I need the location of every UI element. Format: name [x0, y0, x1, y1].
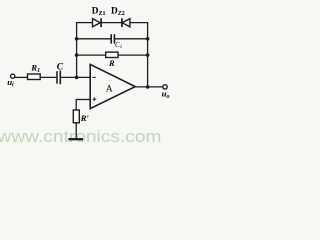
svg-text:R′: R′ [80, 113, 90, 123]
node: junction dot left rail / input [75, 76, 79, 80]
node: junction dot right rail / R [146, 53, 150, 57]
wire R rail left [77, 54, 106, 56]
op-amp plus marker [93, 97, 97, 101]
wire C1 rail left [77, 38, 111, 40]
wire non-inverting input horizontal [76, 99, 90, 101]
terminal ui [11, 74, 15, 78]
wire R rail right [118, 54, 148, 56]
svg-text:C: C [57, 62, 64, 72]
terminal uo [163, 85, 167, 89]
wire top rail left segment [77, 22, 93, 24]
wire C to op-amp inverting input [61, 76, 90, 78]
wire R' to ground [75, 123, 77, 139]
node: junction dot right rail / C1 [146, 37, 150, 41]
resistor R1 [28, 74, 41, 80]
wire top rail middle segment [101, 22, 121, 24]
wire C1 rail right [115, 38, 148, 40]
capacitor C [57, 71, 60, 85]
svg-text:R: R [108, 59, 115, 68]
svg-text:www.cntronics.com: www.cntronics.com [0, 127, 162, 146]
resistor R [106, 52, 118, 57]
op-amp minus marker [92, 76, 95, 78]
wire op-amp output [135, 86, 163, 88]
capacitor C1 [111, 34, 114, 43]
ground [68, 138, 83, 140]
diode Dz1 [93, 18, 102, 27]
wire input terminal to R1 [15, 76, 28, 78]
wire non-inverting vertical down to R' [75, 99, 77, 110]
node: junction dot left rail / C1 [75, 37, 79, 41]
wire top rail right segment [130, 22, 148, 24]
node: junction dot output [146, 85, 150, 89]
wire left feedback rail [76, 22, 78, 77]
diode Dz2 [122, 18, 130, 27]
resistor R' [73, 110, 79, 123]
node: junction dot left rail / R [75, 53, 79, 57]
svg-text:A: A [106, 84, 113, 95]
op-amp A [90, 64, 135, 108]
wire right feedback rail [147, 22, 149, 87]
wire R1 to C [40, 76, 56, 78]
